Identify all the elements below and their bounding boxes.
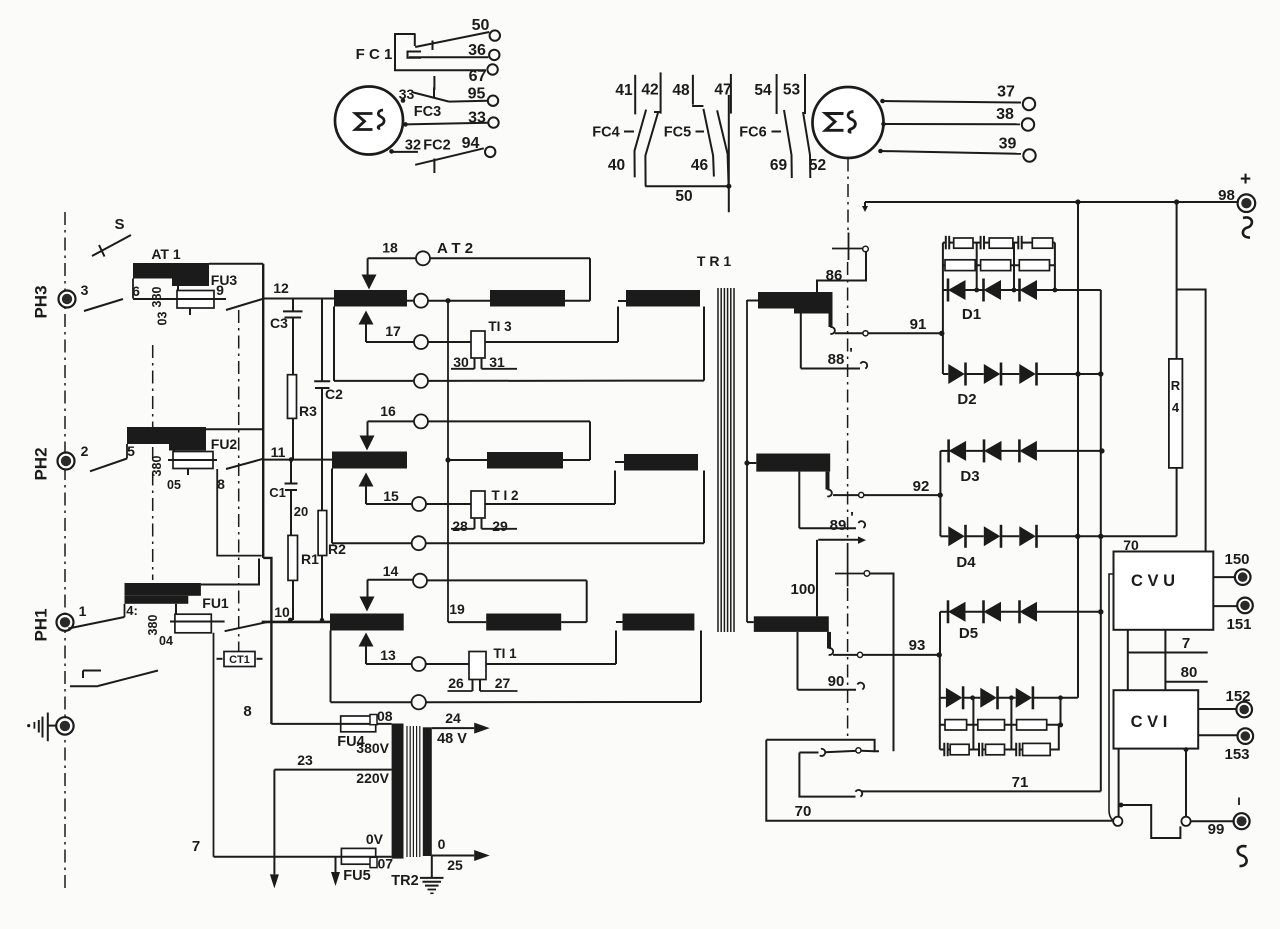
svg-text:C2: C2 [325, 386, 343, 402]
terminal 99 [1191, 820, 1233, 822]
svg-text:F C 1: F C 1 [356, 46, 393, 63]
diode group D2 [943, 373, 948, 375]
svg-text:150: 150 [1224, 551, 1249, 568]
svg-text:90: 90 [828, 673, 845, 690]
diode group D5 [940, 611, 948, 613]
svg-text:FC2: FC2 [423, 138, 450, 154]
transformer TR2 secondary [423, 727, 432, 856]
wire 93 [833, 654, 857, 656]
svg-text:4: 4 [1172, 400, 1180, 415]
drain arrow [335, 857, 337, 872]
svg-text:153: 153 [1224, 746, 1249, 763]
wire AT1 ph2 top to node [206, 428, 263, 430]
svg-text:91: 91 [910, 316, 927, 333]
control block CV I [1114, 690, 1199, 748]
terminal 36 [489, 50, 499, 60]
rectifier rail left D5 [939, 612, 941, 655]
svg-text:380V: 380V [356, 740, 389, 756]
svg-text:92: 92 [913, 478, 930, 495]
switch blade FU1 to node 10 [225, 622, 268, 631]
svg-text:18: 18 [382, 240, 398, 256]
svg-text:D5: D5 [959, 625, 978, 642]
wire 80 [1165, 681, 1207, 683]
wire 7 drop from FU1 [213, 633, 215, 857]
polarity squiggle 98 [1243, 217, 1252, 237]
wire CVU to CVI [1127, 630, 1129, 690]
transformer TR1 secondary p1 [754, 616, 829, 632]
svg-text:16: 16 [380, 403, 396, 419]
resistor R2 [318, 511, 327, 556]
switch blade PH3 [84, 299, 123, 311]
wire 70 link [766, 740, 1112, 821]
svg-text:14: 14 [383, 563, 399, 579]
svg-text:13: 13 [380, 647, 396, 663]
snubber diode row D5 [940, 697, 946, 699]
svg-text:93: 93 [909, 637, 926, 654]
svg-text:T R 1: T R 1 [697, 253, 731, 269]
svg-text:100: 100 [790, 581, 815, 598]
autotransformer AT1 phase1 [125, 583, 201, 596]
diode group D1 [943, 289, 948, 291]
svg-text:19: 19 [449, 601, 465, 617]
svg-text:88: 88 [828, 351, 845, 368]
terminal 153 [1198, 734, 1238, 736]
brush terminal return p2 [412, 536, 426, 550]
svg-text:03: 03 [156, 312, 170, 326]
svg-text:11: 11 [271, 444, 286, 460]
svg-text:42: 42 [641, 82, 658, 99]
svg-text:5: 5 [127, 443, 135, 459]
transformer TR1 primary p1 [623, 614, 695, 631]
winding W3 mid [490, 290, 565, 307]
svg-text:PH3: PH3 [32, 285, 51, 318]
svg-text:3: 3 [81, 282, 89, 298]
winding W2 mid [487, 452, 563, 469]
svg-text:48: 48 [672, 82, 690, 99]
variac AT2 phase3 bar [334, 290, 407, 307]
wire 92 [833, 494, 859, 496]
svg-text:380: 380 [150, 287, 164, 308]
snubber R network D1 [943, 264, 1055, 266]
svg-text:R3: R3 [299, 403, 317, 419]
svg-text:31: 31 [489, 354, 505, 370]
svg-text:C V U: C V U [1131, 572, 1175, 590]
wire 33 from motor [406, 123, 488, 125]
capacitor C3 [292, 299, 294, 312]
svg-text:50: 50 [675, 188, 692, 205]
polarity squiggle 99 [1238, 846, 1247, 866]
svg-text:53: 53 [783, 82, 801, 99]
svg-text:28: 28 [452, 518, 468, 534]
switch blade FU3 to node 12 [226, 299, 264, 311]
wire 71 link [856, 790, 863, 797]
svg-text:98: 98 [1218, 187, 1235, 204]
svg-text:T I 2: T I 2 [491, 488, 518, 503]
svg-text:0: 0 [438, 836, 446, 852]
svg-text:04: 04 [159, 634, 173, 648]
output 0 25 [432, 855, 474, 857]
diode group D3 [940, 450, 948, 452]
svg-text:39: 39 [999, 136, 1017, 153]
svg-text:46: 46 [691, 157, 709, 174]
motor M1 fan [335, 87, 403, 155]
main vertical bus left [262, 264, 264, 558]
capacitor C2 [321, 299, 323, 382]
wire plus bus [865, 201, 1238, 203]
contact 86 [848, 233, 850, 261]
svg-text:94: 94 [462, 135, 480, 152]
svg-text:FU2: FU2 [211, 436, 238, 452]
wire 90 [797, 632, 799, 690]
terminal 150 [1213, 576, 1236, 578]
svg-text:10: 10 [274, 604, 290, 620]
secondary common bus [746, 300, 748, 622]
svg-text:FC5: FC5 [664, 125, 691, 141]
svg-text:23: 23 [297, 752, 313, 768]
svg-text:86: 86 [826, 267, 843, 284]
svg-text:FU5: FU5 [343, 868, 370, 884]
svg-text:2: 2 [81, 443, 89, 459]
svg-text:PH1: PH1 [32, 608, 51, 641]
motor M2 fan [813, 87, 884, 158]
svg-text:R: R [1171, 378, 1181, 393]
snubber RC row D5 [940, 749, 945, 751]
svg-text:FU1: FU1 [202, 595, 229, 611]
dash-dot phase boundary [64, 212, 66, 888]
svg-text:PH2: PH2 [32, 447, 51, 480]
svg-text:27: 27 [495, 675, 511, 691]
svg-text:48 V: 48 V [437, 731, 467, 747]
svg-text:151: 151 [1226, 616, 1251, 633]
svg-text:220V: 220V [356, 770, 389, 786]
rail rectifier output [1100, 290, 1102, 791]
svg-text:38: 38 [996, 106, 1014, 123]
snubber R network D5 [940, 724, 1061, 726]
winding W1 mid [486, 614, 561, 631]
wire 88 [800, 309, 802, 369]
svg-text:08: 08 [377, 708, 393, 724]
rectifier rail left D1D2 [942, 243, 944, 374]
svg-text:67: 67 [469, 68, 487, 85]
vertical bus 19 [447, 301, 449, 622]
brush terminal circle p3 [414, 294, 428, 308]
svg-text:9: 9 [216, 282, 224, 298]
svg-text:': ' [850, 509, 854, 526]
terminal 151 [1213, 605, 1238, 607]
capacitor C1 [290, 460, 292, 484]
terminal 67 [487, 64, 497, 74]
svg-text:05: 05 [167, 478, 181, 492]
transformer TR1 primary p2 [624, 454, 698, 471]
svg-text:80: 80 [1181, 664, 1198, 681]
svg-text:20: 20 [294, 504, 308, 519]
connector bullet right [1185, 750, 1187, 817]
svg-text:12: 12 [273, 280, 289, 296]
connector bullet left [1118, 749, 1120, 817]
switch blade PH1 [68, 617, 124, 629]
wire 7 [1128, 652, 1208, 654]
terminal 33 [488, 117, 498, 127]
wire 8 drop from FU2 [217, 469, 262, 556]
autotransformer AT1 phase2 [127, 427, 206, 444]
svg-text:A T 2: A T 2 [437, 240, 473, 257]
svg-text:41: 41 [615, 82, 633, 99]
svg-text:D3: D3 [960, 468, 979, 485]
svg-text:1: 1 [79, 603, 87, 619]
switch blade FU2 to node 11 [226, 459, 264, 469]
terminal 50 [490, 30, 500, 40]
ground terminal [56, 717, 73, 734]
wire CVU sense drop [1109, 574, 1115, 821]
mechanical linkage dash-dot [847, 159, 849, 232]
contact FC1 blade 50 [415, 32, 489, 47]
transformer TR2 primary [392, 724, 404, 859]
svg-text:AT 1: AT 1 [151, 246, 181, 262]
svg-text:380: 380 [150, 456, 164, 477]
svg-text:8: 8 [243, 703, 251, 720]
svg-text:S: S [114, 216, 124, 233]
fuse FU1 [175, 604, 177, 614]
terminal 39 [1023, 149, 1035, 161]
svg-text:95: 95 [468, 86, 486, 103]
svg-text:99: 99 [1208, 821, 1225, 838]
svg-text:07: 07 [378, 856, 394, 872]
snubber RC network D1 [943, 242, 946, 244]
rectifier rail left D3D4 [939, 451, 941, 536]
svg-text:71: 71 [1012, 774, 1029, 791]
svg-text:D2: D2 [957, 391, 976, 408]
svg-text:26: 26 [448, 675, 464, 691]
resistor R4 chain [1176, 202, 1178, 359]
svg-text:24: 24 [445, 710, 461, 726]
wire AT1 top to node [209, 263, 263, 265]
svg-text:R1: R1 [301, 551, 319, 567]
wire 91 [835, 332, 863, 334]
current transformer CT1 [224, 652, 255, 667]
contact 100 [816, 540, 818, 617]
wire FC1 common [433, 76, 435, 90]
svg-text:50: 50 [472, 17, 490, 34]
svg-text:7: 7 [1182, 635, 1190, 652]
svg-text:C3: C3 [270, 315, 288, 331]
svg-text:29: 29 [492, 518, 508, 534]
svg-text:FC3: FC3 [414, 104, 441, 120]
transformer TR1 secondary p2 [756, 454, 830, 472]
resistor R1 [288, 535, 298, 580]
svg-text:30: 30 [453, 354, 469, 370]
wire 89 [798, 472, 800, 529]
transformer TR2 core [406, 726, 408, 857]
svg-text:7: 7 [192, 838, 200, 855]
svg-text:15: 15 [383, 488, 399, 504]
terminal 152 [1198, 708, 1237, 710]
rail positive to rectifier [1077, 202, 1079, 698]
svg-text:C V I: C V I [1131, 713, 1168, 731]
svg-text:D4: D4 [956, 554, 976, 571]
svg-text:36: 36 [468, 42, 486, 59]
connector dip link [1119, 803, 1124, 808]
svg-text:4:: 4: [126, 603, 138, 618]
svg-text:FU3: FU3 [211, 272, 238, 288]
svg-text:17: 17 [385, 323, 401, 339]
resistor R3 [288, 375, 297, 419]
terminal 94 [485, 147, 495, 157]
fuse FU5 [341, 848, 375, 864]
diode group D4 [940, 535, 948, 537]
svg-text:FC6: FC6 [739, 125, 766, 141]
wire 36 [409, 56, 488, 58]
svg-text:69: 69 [770, 157, 788, 174]
svg-text:TI 1: TI 1 [493, 646, 517, 661]
svg-text:40: 40 [608, 157, 625, 174]
svg-text:CT1: CT1 [229, 654, 250, 666]
svg-text:52: 52 [809, 157, 826, 174]
svg-text:+: + [1240, 169, 1251, 190]
variac AT2 phase2 bar [332, 452, 407, 469]
svg-text:89: 89 [830, 517, 847, 534]
svg-text:D1: D1 [962, 306, 981, 323]
variac AT2 phase1 bar [330, 614, 404, 631]
aux contact below PH1 [83, 670, 101, 672]
transformer TR1 secondary p3 [758, 292, 833, 309]
wire 39 [881, 151, 1022, 154]
svg-text:TI 3: TI 3 [488, 319, 512, 334]
fuse FU2 [173, 451, 175, 453]
svg-text:33: 33 [468, 110, 486, 127]
switch blade PH2 [90, 459, 127, 472]
svg-text:37: 37 [997, 84, 1015, 101]
terminal 95 [488, 96, 498, 106]
brush terminal return p3 [414, 374, 428, 388]
svg-text:FC4: FC4 [592, 125, 619, 141]
terminal 37 [1023, 98, 1035, 110]
wire 37 [883, 101, 1022, 103]
terminal 38 [1022, 118, 1034, 130]
svg-text:54: 54 [754, 82, 772, 99]
wire AT1 ph1 top to bus [201, 559, 259, 585]
snubber rail left D5 [939, 655, 941, 750]
svg-text:25: 25 [447, 857, 463, 873]
svg-text:TR2: TR2 [391, 873, 418, 889]
wire 38 [884, 123, 1021, 125]
svg-text:380: 380 [146, 615, 160, 636]
ground symbol left [47, 713, 49, 742]
svg-text:0V: 0V [366, 831, 384, 847]
brush terminal return p1 [412, 695, 426, 709]
contact link lower [820, 749, 825, 756]
fuse FU3 [177, 286, 179, 291]
svg-text:8: 8 [217, 476, 225, 492]
svg-text:C1: C1 [269, 485, 286, 500]
svg-text:70: 70 [795, 803, 812, 820]
fuse FU4 [341, 716, 376, 732]
ground TR2 [431, 856, 433, 878]
svg-text:': ' [849, 345, 853, 362]
transformer TR1 primary p3 [626, 290, 700, 307]
wire 50 bus [645, 185, 729, 187]
output 24 48V [432, 727, 474, 729]
